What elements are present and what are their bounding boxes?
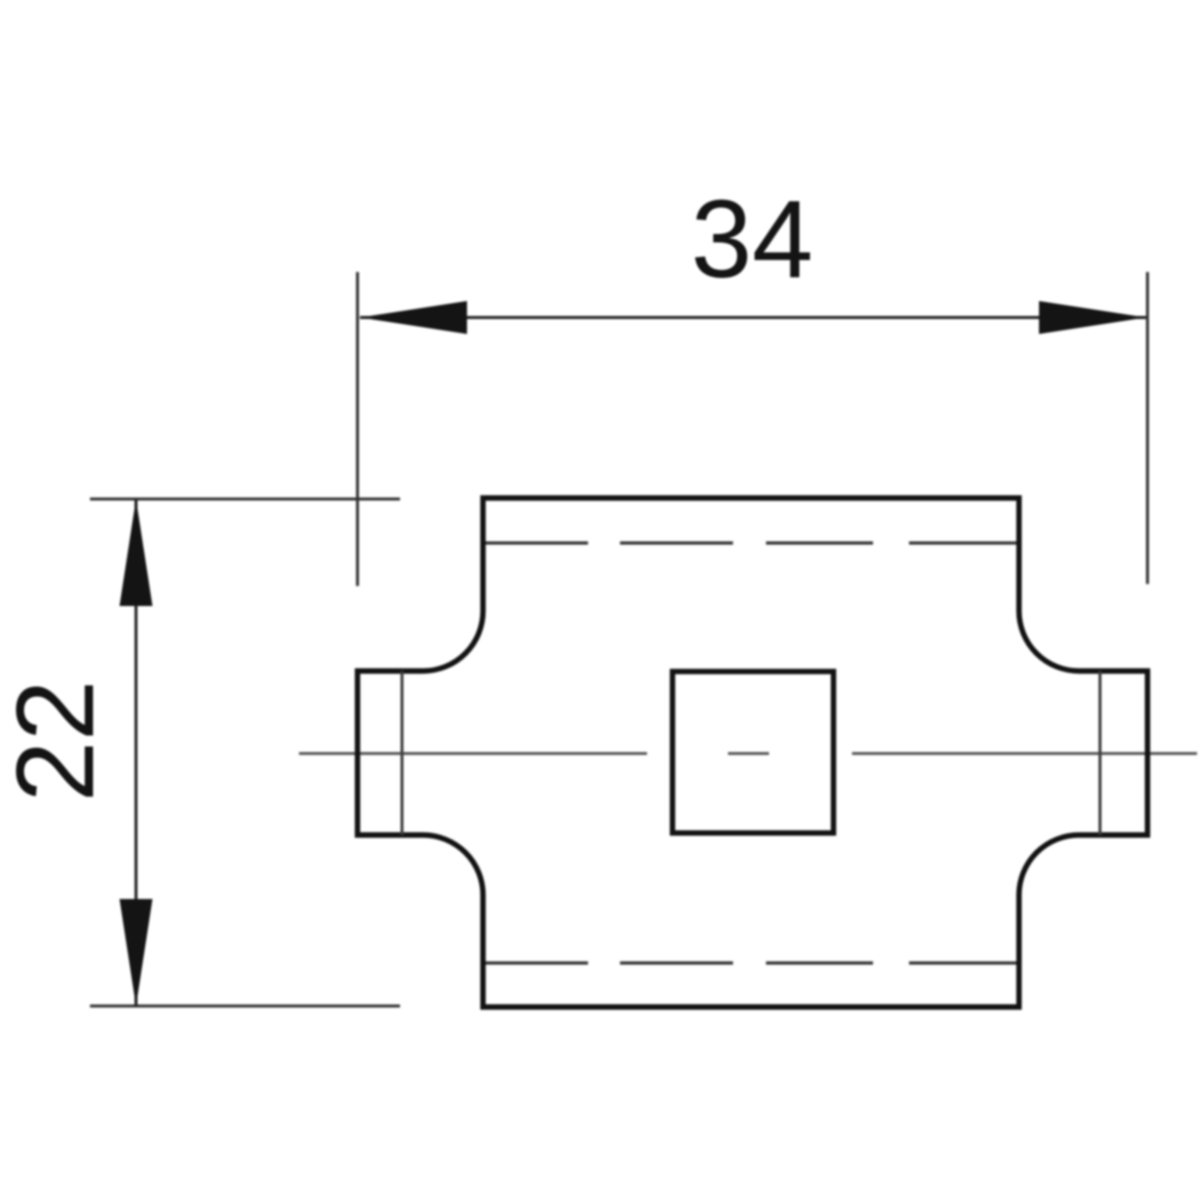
dim 34 arrowhead right: [1039, 301, 1146, 334]
dim 34 arrowhead left: [360, 301, 467, 334]
part outline: [358, 498, 1148, 1007]
svg-text:22: 22: [0, 680, 117, 802]
right ear inner edge: [1099, 671, 1102, 835]
hidden dashed line bottom: [481, 961, 1017, 964]
left ear inner edge: [401, 671, 404, 835]
dim 34 dimension line: [360, 316, 1146, 319]
centerline (horizontal axis): [299, 752, 1197, 755]
dim 22 extension line bottom: [90, 1005, 400, 1008]
hidden dashed line top: [481, 541, 1017, 544]
dim 22 dimension line: [135, 499, 138, 1006]
dim 34 extension line right: [1146, 272, 1149, 584]
square hole: [673, 672, 834, 834]
dim 22 extension line top: [90, 498, 400, 501]
svg-text:34: 34: [691, 178, 813, 301]
dim 22 arrowhead bottom: [120, 899, 153, 1006]
dim 22 arrowhead top: [120, 499, 153, 606]
dim 34 extension line left: [356, 272, 359, 586]
